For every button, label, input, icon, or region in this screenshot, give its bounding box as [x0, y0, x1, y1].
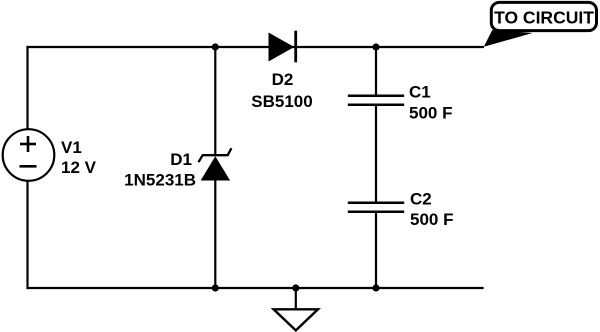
svg-text:1N5231B: 1N5231B: [124, 170, 196, 189]
zener diode D1: [199, 148, 232, 180]
svg-text:D2: D2: [272, 70, 294, 89]
wire cap branch upper: [375, 47, 377, 96]
svg-text:12 V: 12 V: [61, 158, 97, 177]
wire ground stub: [295, 288, 297, 310]
svg-text:D1: D1: [170, 150, 192, 169]
voltage source V1: [3, 129, 55, 181]
ground: [274, 309, 318, 330]
junction dot top zener: [212, 43, 219, 50]
svg-text:C2: C2: [410, 190, 432, 209]
svg-text:TO CIRCUIT: TO CIRCUIT: [494, 7, 594, 27]
wire bottom horizontal: [28, 287, 484, 289]
wire zener branch lower: [214, 180, 216, 288]
svg-text:500 F: 500 F: [410, 210, 453, 229]
svg-text:V1: V1: [61, 138, 82, 157]
wire left vertical lower: [26, 181, 28, 289]
wire left vertical upper: [26, 46, 28, 130]
wire cap branch middle: [375, 105, 377, 203]
wire zener branch upper: [214, 47, 216, 156]
wire top horizontal: [28, 46, 485, 48]
node TO CIRCUIT callout tail: [484, 30, 533, 47]
wire cap branch lower: [375, 212, 377, 288]
node TO CIRCUIT callout box: [491, 2, 596, 30]
junction dot bottom ground: [292, 284, 299, 291]
svg-text:C1: C1: [409, 83, 431, 102]
svg-text:500 F: 500 F: [409, 104, 452, 123]
capacitor C1: [348, 96, 404, 105]
junction dot top cap: [372, 43, 379, 50]
diode D2: [269, 31, 296, 63]
svg-text:SB5100: SB5100: [251, 92, 312, 111]
junction dot bottom zener: [212, 284, 219, 291]
capacitor C2: [348, 203, 404, 212]
junction dot bottom cap: [372, 284, 379, 291]
